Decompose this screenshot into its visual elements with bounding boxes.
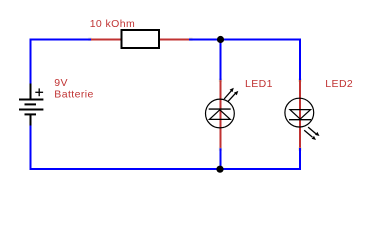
wire LED1 branch blue lower [220, 148, 222, 170]
node junction bottom [216, 166, 223, 173]
LED1 emission arrow b [228, 91, 239, 102]
svg-text:LED2: LED2 [325, 78, 353, 90]
pin end marker LED1 top [219, 79, 222, 82]
wire LED2 branch blue lower [299, 148, 301, 170]
wire LED1 branch blue upper [220, 40, 222, 81]
battery plus sign [35, 88, 43, 96]
LED2 emission arrow b [304, 130, 316, 140]
pin end marker LED2 bottom [298, 147, 301, 150]
svg-text:LED1: LED1 [245, 78, 273, 90]
pin end marker right of resistor [189, 38, 192, 41]
LED2 circle [285, 98, 314, 127]
LED2 triangle [290, 110, 311, 120]
svg-text:10 kOhm: 10 kOhm [90, 18, 135, 30]
LED2 cathode bar [289, 119, 311, 121]
pin end marker left of resistor [88, 38, 91, 41]
wire LED2 branch blue upper [299, 39, 301, 81]
wire resistor left pin red [91, 39, 121, 41]
wire LED2 pin red through symbol [299, 80, 301, 148]
wire top left blue [30, 39, 92, 41]
resistor R1 body [122, 30, 160, 48]
battery B1 [19, 84, 43, 126]
svg-text:9V: 9V [54, 77, 68, 89]
svg-text:Batterie: Batterie [54, 89, 93, 101]
pin end marker LED2 top [298, 79, 301, 82]
LED1 circle [206, 99, 235, 128]
LED2 emission arrow a [308, 127, 319, 136]
wire top right blue [189, 39, 301, 41]
LED1 cathode bar [209, 108, 231, 110]
node junction top [217, 36, 224, 43]
wire left vertical blue upper [30, 39, 32, 85]
LED1 triangle [209, 110, 230, 120]
pin end marker LED1 bottom [219, 148, 222, 151]
LED1 emission arrow a [224, 88, 234, 99]
wire left vertical blue lower [30, 125, 32, 171]
wire resistor right pin red [160, 39, 190, 41]
wire LED1 pin red through symbol [220, 80, 222, 148]
wire bottom blue [30, 168, 302, 170]
